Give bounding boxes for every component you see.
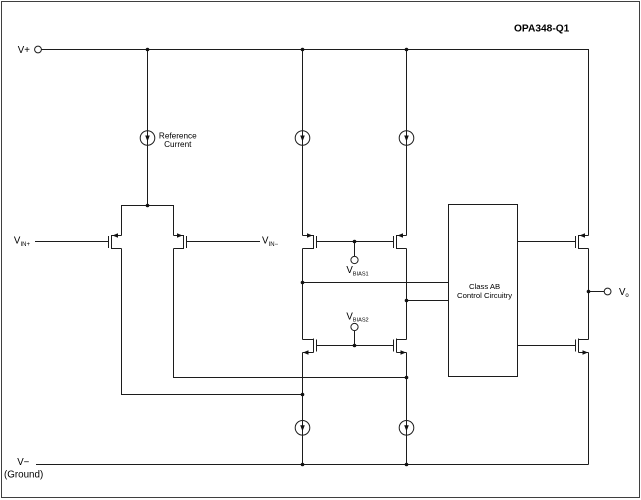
- svg-text:V+: V+: [18, 45, 30, 56]
- svg-text:OPA348-Q1: OPA348-Q1: [514, 23, 570, 34]
- arrow Q1 source (PMOS, points toward channel): [113, 233, 119, 237]
- wire VIN- gate lead: [187, 241, 261, 243]
- terminal Vo: [604, 288, 611, 295]
- arrow I5: [404, 425, 409, 431]
- junction dot V+/right column: [405, 48, 409, 52]
- arrow Q8 source (NMOS, points outward): [583, 350, 589, 354]
- current source I5 (bottom right): [399, 421, 414, 436]
- junction dot input bus: [146, 204, 150, 208]
- arrow Q2 source (PMOS, points toward channel): [177, 233, 183, 237]
- terminal VBIAS1: [351, 256, 358, 263]
- svg-text:BIAS1: BIAS1: [353, 271, 369, 277]
- arrow I4: [300, 425, 305, 431]
- junction dot V+/ref column: [146, 48, 150, 52]
- svg-text:Control Circuitry: Control Circuitry: [457, 291, 512, 300]
- junction dot V+/left column: [301, 48, 305, 52]
- current source I2: [295, 131, 310, 146]
- arrow Q4 source (PMOS, points toward channel): [398, 233, 404, 237]
- transistor Q7 output PMOS: [576, 235, 589, 249]
- junction dot V-/right column: [405, 463, 409, 467]
- wire output node column: [588, 249, 590, 340]
- current source I3: [399, 131, 414, 146]
- wire left-middle column top: [302, 50, 304, 236]
- wire V- rail: [36, 464, 589, 466]
- arrow Q3 source (PMOS, points toward channel): [307, 233, 313, 237]
- transistor Q3 PMOS (VBIAS1 left, mirrored): [303, 235, 317, 249]
- wire VBIAS2 terminal stub: [354, 331, 356, 346]
- transistor Q5 NMOS (VBIAS2 left, mirrored): [303, 339, 317, 353]
- arrow Q5 source (NMOS, points outward): [303, 350, 309, 354]
- transistor Q8 output NMOS: [576, 339, 589, 353]
- svg-text:BIAS2: BIAS2: [353, 318, 369, 324]
- svg-text:(Ground): (Ground): [4, 469, 43, 480]
- wire node A to class AB box: [303, 282, 449, 284]
- arrow I-REF: [145, 136, 150, 142]
- wire VBIAS1 gate bus: [317, 241, 394, 243]
- wire input-pair source bus: [122, 206, 174, 236]
- junction dot node B: [405, 299, 409, 303]
- transistor Q6 NMOS (VBIAS2 right): [394, 339, 407, 353]
- wire VBIAS2 gate bus: [317, 345, 394, 347]
- wire V+ rail: [42, 50, 589, 236]
- terminal V+: [35, 46, 42, 53]
- junction dot VBIAS2 gate: [353, 344, 357, 348]
- junction dot output node: [587, 290, 591, 294]
- junction dot VBIAS1 gate: [353, 240, 357, 244]
- svg-text:IN+: IN+: [21, 242, 31, 248]
- svg-text:V−: V−: [17, 457, 29, 468]
- terminal VBIAS2: [351, 323, 358, 330]
- transistor Q2 input PMOS (VIN-): [174, 235, 187, 249]
- junction dot right fold: [405, 376, 409, 380]
- class AB control circuitry box: [449, 205, 518, 377]
- wire output column bottom: [588, 353, 590, 465]
- junction dot left fold: [301, 393, 305, 397]
- svg-text:Class AB: Class AB: [469, 282, 500, 291]
- wire right-middle column top: [406, 50, 408, 236]
- wire left-middle column bottom: [302, 353, 304, 465]
- wire Q1 drain down to left fold: [122, 249, 303, 395]
- arrow I2: [300, 136, 305, 142]
- current source I-REF: [140, 131, 155, 146]
- transistor Q1 input PMOS (VIN+): [109, 235, 122, 249]
- wire Vo lead: [589, 291, 605, 293]
- arrow Q7 source (PMOS, points toward channel): [580, 233, 586, 237]
- wire VBIAS1 terminal stub: [354, 242, 356, 257]
- junction dot node A: [301, 281, 305, 285]
- wire box to output NMOS gate: [518, 345, 576, 347]
- wire node B to class AB box: [407, 300, 449, 302]
- wire VIN+ gate lead: [35, 241, 109, 243]
- svg-text:IN−: IN−: [269, 242, 279, 248]
- arrow Q6 source (NMOS, points outward): [401, 350, 407, 354]
- junction dot V-/left column: [301, 463, 305, 467]
- wire left-middle column mid: [302, 249, 304, 340]
- current source I4 (bottom left): [295, 421, 310, 436]
- wire box to output PMOS gate: [518, 241, 576, 243]
- wire right-middle column mid: [406, 249, 408, 340]
- wire Q2 drain down to right fold: [174, 249, 407, 378]
- wire reference-current column: [147, 50, 149, 206]
- arrow I3: [404, 136, 409, 142]
- wire right-middle column bottom: [406, 353, 408, 465]
- transistor Q4 PMOS (VBIAS1 right): [394, 235, 407, 249]
- svg-text:Current: Current: [164, 140, 192, 149]
